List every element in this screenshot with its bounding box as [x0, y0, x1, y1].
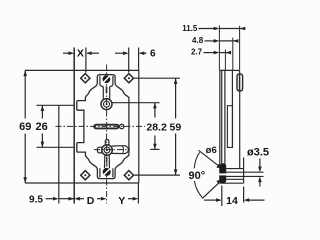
dim 11.5 extension lines [219, 25, 239, 70]
cam left stub [97, 147, 102, 153]
top screw with slot [103, 75, 111, 83]
svg-text:D: D [87, 195, 95, 207]
left partial edge line [58, 105, 60, 203]
catch bulge [237, 74, 243, 91]
screw hole diamond TR [124, 74, 133, 83]
dim 4.8 extension line [232, 38, 234, 71]
svg-text:ø3.5: ø3.5 [247, 146, 269, 158]
dim 14 [204, 186, 265, 207]
side view inner line a [224, 70, 226, 163]
cam top stub [105, 140, 109, 146]
phi3.5 spindle lines [225, 172, 264, 176]
cam bar side view [219, 163, 227, 183]
svg-text:4.8: 4.8 [192, 36, 204, 45]
nozzle inner walls bottom [100, 168, 113, 177]
keyhole end circle [120, 124, 124, 128]
plate bottom edge with left extension [25, 182, 139, 184]
dim 4.8 line [205, 39, 239, 43]
dim 6 [115, 48, 147, 73]
svg-text:28.2: 28.2 [146, 122, 167, 134]
side view inner line b [231, 70, 233, 147]
spindle end extension line [243, 158, 245, 184]
svg-text:59: 59 [170, 122, 182, 134]
plate top edge with left extension [25, 69, 139, 71]
cam bottom stub [105, 155, 110, 168]
dim 2.7 extension line [224, 49, 226, 70]
lock body outline [77, 75, 129, 179]
plate right edge [138, 70, 140, 183]
svg-text:90°: 90° [188, 170, 205, 182]
side view right face [239, 73, 241, 169]
dim 28.2 [113, 103, 160, 150]
svg-text:X: X [77, 47, 84, 59]
svg-text:9.5: 9.5 [29, 195, 43, 206]
svg-text:14: 14 [226, 195, 238, 207]
dim 59 [134, 78, 181, 175]
dim 9.5 [46, 197, 75, 201]
svg-text:2.7: 2.7 [191, 48, 203, 57]
keyhole post [100, 85, 113, 98]
dim 11.5 line [199, 27, 246, 31]
dim 26 [37, 105, 75, 147]
screw hole diamond BL [81, 171, 90, 180]
key pin boss [101, 99, 112, 110]
phi6 cylinder lines [226, 169, 243, 180]
svg-text:6: 6 [150, 49, 156, 60]
dim D [69, 197, 107, 201]
cam right arm [112, 146, 129, 154]
key channel rect [227, 106, 232, 148]
svg-text:69: 69 [19, 121, 31, 133]
90 degree arc [194, 152, 202, 197]
svg-text:26: 26 [35, 121, 47, 133]
svg-text:Y: Y [118, 195, 125, 207]
svg-text:11.5: 11.5 [182, 24, 198, 33]
side view left face double line [220, 70, 222, 183]
horizontal keyhole stadium [94, 125, 118, 129]
cam arm notch [122, 146, 123, 154]
fold line [73, 48, 75, 204]
side view top edge [220, 70, 240, 72]
dim X [63, 48, 99, 73]
horizontal centerline [56, 125, 146, 127]
bottom screw with slot [103, 168, 111, 176]
nozzle inner walls top [100, 76, 113, 86]
dim Y [128, 183, 138, 204]
svg-text:ø6: ø6 [206, 145, 217, 156]
cam boss [102, 145, 113, 156]
screw hole diamond TL [81, 74, 90, 83]
screw hole diamond BR [124, 171, 133, 180]
dim phi3.5 arrows [258, 159, 262, 187]
cam centerline [94, 149, 130, 151]
dim 69 [23, 70, 27, 183]
dim 2.7 line [204, 51, 232, 55]
cam bottom slot [106, 157, 108, 167]
side view bottom edge [220, 182, 244, 184]
vertical centerline [106, 65, 108, 204]
keyhole slot [106, 86, 108, 93]
90 degree wedge legs with arrowheads at cam [199, 150, 223, 198]
